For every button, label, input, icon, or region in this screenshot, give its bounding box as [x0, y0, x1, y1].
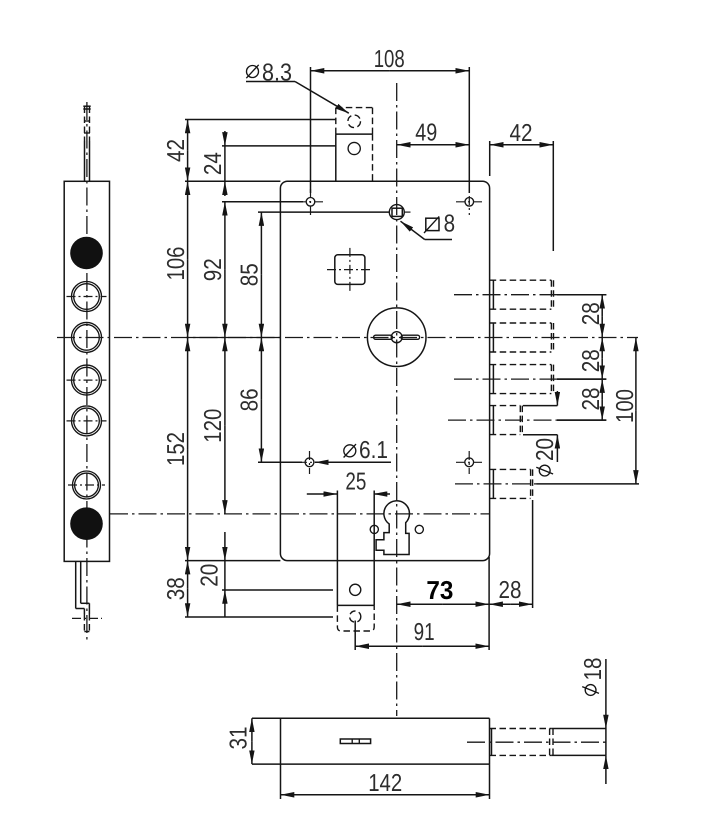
svg-text:24: 24	[200, 152, 227, 175]
side view bolt	[490, 728, 552, 730]
dim 73	[397, 603, 443, 605]
svg-text:25: 25	[345, 469, 366, 496]
side view body	[252, 717, 490, 719]
svg-text:20: 20	[532, 438, 559, 461]
svg-text:108: 108	[374, 46, 405, 73]
dim 85	[260, 212, 262, 275]
dim 142	[281, 794, 386, 796]
deadbolt 2	[490, 322, 552, 324]
label square-8	[426, 218, 439, 230]
bottom tab hidden extension	[337, 605, 374, 631]
dim 24 (outside arrows)	[224, 131, 226, 146]
strip hole 5	[73, 471, 101, 499]
svg-text:42: 42	[163, 139, 190, 162]
dim D20 (outside arrows)	[523, 405, 557, 407]
hole top-right	[465, 198, 474, 207]
service bolt	[490, 405, 521, 407]
faceplate strip	[64, 181, 109, 561]
dim 28 r3	[601, 379, 603, 400]
follower wings	[374, 335, 393, 339]
svg-text:106: 106	[163, 247, 190, 281]
cylinder follower circle	[367, 308, 426, 367]
dim 28 r2	[601, 338, 603, 359]
dim D18 (outside arrows)	[605, 659, 607, 729]
dim 28 bottom	[489, 603, 511, 605]
svg-text:92: 92	[200, 258, 227, 281]
strip centerline	[86, 102, 88, 640]
dim 100	[635, 338, 637, 411]
dim 42 left	[187, 120, 189, 151]
svg-text:18: 18	[580, 658, 607, 681]
dim 142 ext lines	[280, 764, 282, 799]
latch bolt	[490, 468, 531, 470]
main horizontal centerline	[57, 337, 638, 339]
latch bolt centerline	[455, 483, 537, 485]
dim 42 top-right	[490, 144, 522, 146]
top tab hidden part	[336, 107, 373, 109]
top tab hole	[348, 142, 360, 154]
bottom tab	[336, 491, 338, 606]
euro cylinder keyhole	[376, 501, 409, 555]
lock body plate	[280, 181, 489, 560]
dim 106	[187, 181, 189, 259]
strip hole 3	[72, 365, 102, 395]
svg-text:28: 28	[499, 577, 522, 604]
strip hole 1	[72, 282, 102, 312]
dim 86	[260, 338, 262, 400]
top rod	[84, 141, 86, 181]
svg-text:91: 91	[414, 619, 435, 646]
square follower	[335, 255, 365, 285]
svg-text:8: 8	[444, 211, 456, 238]
screw hole right	[465, 458, 474, 467]
dim 120	[224, 338, 226, 426]
svg-text:86: 86	[237, 388, 264, 411]
svg-text:8.3: 8.3	[262, 60, 292, 87]
service bolt centerline	[448, 419, 557, 421]
label D6.1	[344, 445, 356, 457]
label D8.3	[247, 66, 259, 78]
dim 91	[355, 645, 422, 647]
deadbolt 1 centerline	[454, 294, 557, 296]
dim 28 r1	[601, 295, 603, 316]
dim 25 (outside arrows)	[307, 493, 338, 495]
svg-text:28: 28	[578, 388, 605, 411]
svg-text:73: 73	[426, 575, 453, 605]
svg-text:100: 100	[612, 389, 639, 423]
svg-text:28: 28	[578, 302, 605, 325]
screw hole left	[305, 458, 314, 467]
svg-text:38: 38	[163, 577, 190, 600]
bottom dims ext lines	[488, 557, 490, 650]
svg-text:85: 85	[237, 263, 264, 286]
svg-text:42: 42	[510, 120, 533, 147]
side view bolt centerline	[467, 741, 609, 743]
D18 diameter symbol	[585, 685, 596, 696]
dim 49	[397, 144, 433, 146]
keyhole side hole right	[415, 525, 423, 533]
right dims ext lines	[557, 294, 606, 296]
svg-text:20: 20	[197, 564, 224, 587]
deadbolt 1	[490, 279, 552, 281]
svg-text:120: 120	[200, 409, 227, 443]
cylinder-hole centerline	[110, 513, 490, 515]
top tab hole (hidden)	[348, 115, 361, 128]
svg-text:31: 31	[226, 727, 253, 750]
strip hole black top	[70, 237, 103, 270]
deadbolt 3 centerline	[454, 378, 557, 380]
dim 108	[311, 70, 390, 72]
strip hole 4	[72, 406, 102, 436]
D20 diameter symbol	[539, 465, 550, 476]
svg-text:152: 152	[163, 432, 190, 466]
svg-text:6.1: 6.1	[359, 437, 388, 464]
bottom tab hole hidden	[350, 611, 361, 622]
keyhole side hole left	[370, 525, 378, 533]
vertical centerline	[396, 83, 398, 716]
top dims ext lines	[310, 67, 312, 193]
dim 20 (outside arrows)	[224, 532, 226, 561]
ext lines left column	[185, 119, 336, 121]
top tab solid part	[336, 133, 373, 135]
dim 152	[187, 338, 189, 450]
svg-text:49: 49	[415, 120, 437, 147]
deadbolt 3	[490, 364, 552, 366]
svg-text:142: 142	[368, 770, 402, 797]
bottom crank rod	[75, 561, 77, 608]
side view slot	[340, 739, 370, 744]
square spindle hole	[389, 205, 404, 220]
svg-text:28: 28	[578, 349, 605, 372]
strip hole 2	[72, 322, 102, 352]
dim 38	[187, 561, 189, 589]
dim 31	[251, 718, 253, 741]
hole top-left	[306, 198, 315, 207]
strip hole black bottom	[70, 507, 103, 540]
bottom tab hole	[350, 584, 361, 595]
dim 92	[224, 202, 226, 270]
